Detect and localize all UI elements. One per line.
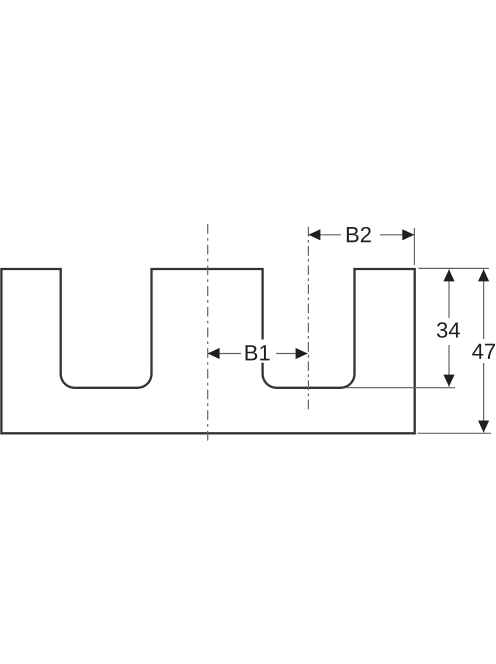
arrow B1 left bbox=[208, 348, 220, 359]
dimension line B2 left segment bbox=[308, 234, 341, 236]
center line right cutout (dash-dot) bbox=[307, 227, 309, 409]
arrow B1 right bbox=[296, 348, 308, 359]
label B1 bbox=[246, 345, 270, 360]
arrow B2 left bbox=[308, 229, 320, 240]
arrow 34 bottom bbox=[443, 375, 454, 387]
dimension line B2 right segment bbox=[380, 234, 414, 236]
dimension line 34 upper segment bbox=[448, 269, 450, 318]
center line plate middle (dash-dot) bbox=[207, 224, 209, 441]
extension line top edge level bbox=[418, 267, 489, 269]
dimension line B1 right segment bbox=[276, 353, 308, 355]
label B2 bbox=[347, 227, 371, 242]
worktop outline with two U cutouts bbox=[1, 269, 414, 433]
arrow B2 right bbox=[402, 229, 414, 240]
dimension line 47 upper segment bbox=[483, 269, 485, 339]
label 34 bbox=[437, 322, 460, 338]
arrow 34 top bbox=[443, 269, 454, 281]
extension line plate bottom level bbox=[417, 432, 491, 434]
arrow 47 bottom bbox=[478, 421, 489, 433]
extension line cutout bottom level bbox=[345, 387, 455, 389]
white halo behind B1 label bbox=[241, 340, 276, 363]
label 47 bbox=[472, 344, 495, 359]
dimension line 34 lower segment bbox=[448, 345, 450, 387]
dimension line B1 left segment bbox=[208, 353, 241, 355]
extension line right edge above plate bbox=[413, 228, 415, 265]
dimension line 47 lower segment bbox=[483, 363, 485, 433]
arrow 47 top bbox=[478, 269, 489, 281]
